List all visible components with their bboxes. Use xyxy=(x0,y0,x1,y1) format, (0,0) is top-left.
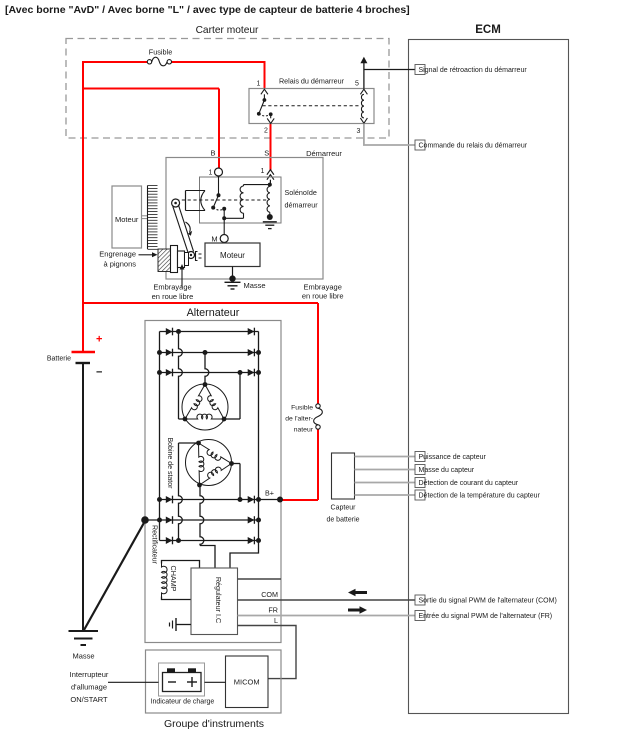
svg-text:Indicateur de charge: Indicateur de charge xyxy=(151,699,215,706)
svg-text:Régulateur I.C: Régulateur I.C xyxy=(214,577,223,623)
svg-text:[Avec borne "AvD" / Avec borne: [Avec borne "AvD" / Avec borne "L" / ave… xyxy=(5,4,410,16)
svg-text:L: L xyxy=(274,616,278,625)
svg-text:démarreur: démarreur xyxy=(285,201,319,210)
svg-text:Capteur: Capteur xyxy=(331,505,357,512)
svg-text:CHAMP: CHAMP xyxy=(169,566,178,592)
svg-text:COM: COM xyxy=(261,590,278,599)
svg-text:Embrayage: Embrayage xyxy=(153,283,191,292)
svg-text:Solénoïde: Solénoïde xyxy=(285,188,317,197)
svg-text:+: + xyxy=(96,334,102,346)
svg-text:Carter moteur: Carter moteur xyxy=(196,25,259,36)
svg-text:en roue libre: en roue libre xyxy=(152,292,194,301)
svg-text:Fusible: Fusible xyxy=(291,405,313,412)
svg-text:Engrenage: Engrenage xyxy=(99,250,136,259)
svg-text:d'allumage: d'allumage xyxy=(71,683,107,692)
svg-text:Détection de la température du: Détection de la température du capteur xyxy=(419,493,541,500)
svg-text:à pignons: à pignons xyxy=(103,260,136,269)
svg-text:de l'alter-: de l'alter- xyxy=(285,416,313,423)
svg-text:B+: B+ xyxy=(265,489,274,498)
svg-text:3: 3 xyxy=(357,128,361,135)
svg-text:2: 2 xyxy=(264,128,268,135)
svg-text:Batterie: Batterie xyxy=(47,356,71,363)
svg-text:Fusible: Fusible xyxy=(149,48,173,57)
svg-text:Puissance de capteur: Puissance de capteur xyxy=(419,454,487,461)
svg-text:Sortie du signal PWM de l'alte: Sortie du signal PWM de l'alternateur (C… xyxy=(419,598,557,605)
svg-text:B: B xyxy=(210,149,215,158)
svg-text:Détection de courant du capteu: Détection de courant du capteur xyxy=(419,480,519,487)
svg-text:Bobine de stator: Bobine de stator xyxy=(166,438,173,490)
svg-text:en roue libre: en roue libre xyxy=(302,292,344,301)
svg-text:FR: FR xyxy=(268,606,278,615)
svg-text:Entrée du signal PWM de l'alte: Entrée du signal PWM de l'alternateur (F… xyxy=(419,613,553,620)
svg-text:Embrayage: Embrayage xyxy=(304,283,342,292)
svg-text:ECM: ECM xyxy=(475,24,501,36)
svg-text:Rectificateur: Rectificateur xyxy=(151,525,158,565)
svg-text:5: 5 xyxy=(355,81,359,88)
svg-text:1: 1 xyxy=(257,81,261,88)
svg-text:S: S xyxy=(264,149,269,158)
svg-text:Masse du capteur: Masse du capteur xyxy=(419,467,475,474)
svg-text:Masse: Masse xyxy=(72,652,94,661)
svg-text:Moteur: Moteur xyxy=(115,215,139,224)
svg-text:ON/START: ON/START xyxy=(70,695,108,704)
svg-text:−: − xyxy=(96,367,102,379)
svg-text:Démarreur: Démarreur xyxy=(306,149,342,158)
svg-text:Signal de rétroaction du démar: Signal de rétroaction du démarreur xyxy=(419,67,528,74)
svg-text:Commande du relais du démarreu: Commande du relais du démarreur xyxy=(419,143,528,150)
svg-text:Alternateur: Alternateur xyxy=(187,307,240,319)
svg-text:nateur: nateur xyxy=(294,427,314,434)
svg-text:de batterie: de batterie xyxy=(326,517,359,524)
svg-text:Groupe d'instruments: Groupe d'instruments xyxy=(164,718,264,730)
svg-text:1: 1 xyxy=(261,168,265,175)
svg-text:Interrupteur: Interrupteur xyxy=(70,670,109,679)
svg-text:Relais du démarreur: Relais du démarreur xyxy=(279,77,345,86)
svg-text:MICOM: MICOM xyxy=(234,678,260,687)
svg-text:1: 1 xyxy=(209,170,213,177)
svg-text:Masse: Masse xyxy=(244,281,266,290)
svg-text:Moteur: Moteur xyxy=(220,251,245,260)
svg-text:M: M xyxy=(211,235,217,244)
